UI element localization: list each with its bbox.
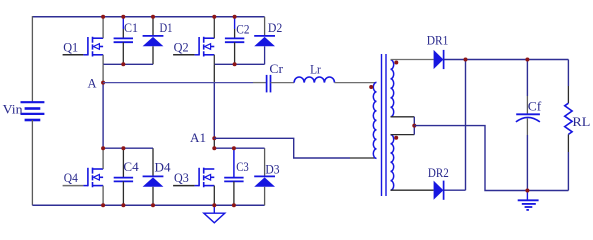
junction row1 at C1 bottom [121,62,125,66]
junction output rail at DR2 branch [464,58,468,62]
transistor Q4 [63,148,104,205]
wire: top positive rail [32,16,264,18]
transformer T1 secondary bottom winding [391,135,394,191]
wire: right leg vertical Q2-Q3 [213,64,215,82]
diode D3 [254,148,275,205]
node center tap junction [412,124,416,128]
wire: Lr to transformer primary [335,82,376,84]
capacitor C1 [114,17,133,65]
svg-text:C3: C3 [236,159,249,174]
wire: center tap to output return [414,126,568,191]
transformer T1 secondary top winding [391,60,394,117]
wire: DR2 cathode up to output rail [444,60,466,191]
svg-text:Cf: Cf [528,99,542,114]
junction row2 at C4 top [121,146,125,150]
junction bottom rail at D4 [151,203,155,207]
capacitor C4 [114,148,133,205]
transistor Q2 [173,17,214,65]
svg-text:Q2: Q2 [174,40,189,55]
junction bottom rail at C3 [232,203,236,207]
wire: battery top lead [31,16,33,102]
node A1 [212,136,216,140]
ground (bridge, signal ground) [204,205,225,223]
junction top rail at Q2 drain [212,15,216,19]
svg-text:RL: RL [572,114,590,129]
svg-text:C2: C2 [236,22,249,37]
transistor Q3 [173,168,214,206]
svg-text:C1: C1 [124,20,138,35]
svg-text:D4: D4 [155,160,172,175]
svg-text:D1: D1 [160,20,173,35]
wire: Cr to Lr [271,82,295,84]
wire: lower-right cell top row [214,147,264,149]
svg-text:Q4: Q4 [64,170,79,185]
svg-text:D3: D3 [265,161,279,176]
wire: center tap joining bar [391,117,415,135]
wire: DR1 cathode to output rail [444,59,569,61]
transformer T1 secondary top phasing dot [394,61,398,65]
svg-text:DR1: DR1 [427,33,449,48]
wire: battery bottom lead [31,120,33,205]
wire: lower-left cell top row [103,147,153,149]
junction top rail at D1 [151,15,155,19]
transformer T1 secondary bottom phasing dot [394,136,398,140]
svg-text:D2: D2 [268,20,282,35]
junction row1 at C2 bottom [233,62,237,66]
junction output return at Cf/ground [525,189,529,193]
svg-text:A: A [88,76,98,91]
svg-text:Vin: Vin [3,102,24,117]
transformer T1 primary winding [373,82,376,158]
resistor RL [565,60,572,191]
svg-text:Q1: Q1 [63,40,78,55]
junction output rail at Cf [525,58,529,62]
transformer T1 core [382,54,387,196]
transistor Q1 [63,17,104,65]
wire: node A row to Cr [103,82,253,84]
junction bottom rail at C4 [121,203,125,207]
svg-text:Cr: Cr [269,61,283,76]
junction row2 at Q4 drain [101,146,105,150]
capacitor Cf [516,60,540,191]
diode D4 [143,148,164,205]
wire: secondary bottom to DR2 [391,189,434,191]
battery Vin [21,102,45,120]
inductor Lr [294,77,334,83]
wire: node A1 to transformer primary bottom [214,138,375,158]
capacitor C2 [225,17,244,65]
diode D2 [254,17,275,65]
svg-text:Lr: Lr [310,62,321,77]
capacitor Cr [267,75,271,93]
diode DR2 [434,181,444,200]
junction bottom rail at ground [212,203,216,207]
junction row2 at Q3 drain [212,146,216,150]
wire: secondary top to DR1 [391,59,434,61]
node A [101,81,105,85]
svg-text:DR2: DR2 [428,165,449,180]
ground (output, earth) [518,191,539,210]
svg-text:C4: C4 [123,159,139,174]
junction top rail at C2 [233,15,237,19]
svg-text:Q3: Q3 [174,170,189,185]
wire: upper-left cell mid row [103,63,153,65]
wire: upper-right cell mid row [214,63,264,65]
capacitor C3 [224,148,243,205]
junction row2 at C3 top [232,146,236,150]
wire: left leg vertical Q1-Q4 [102,64,104,82]
junction top rail at C1 [121,15,125,19]
wire: bottom rail [32,204,264,206]
junction top rail at Q1 drain [101,15,105,19]
diode D1 [143,17,164,65]
transformer T1 primary phasing dot [369,85,373,89]
diode DR1 [434,50,444,69]
svg-text:A1: A1 [190,130,206,145]
junction bottom rail at Q4 source [101,203,105,207]
